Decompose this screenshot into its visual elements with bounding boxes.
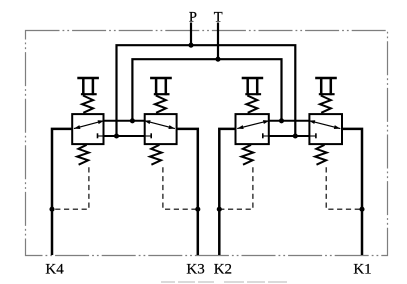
valve V3 bottom spring — [242, 145, 254, 165]
valve V2 pilot tick — [150, 133, 152, 138]
wire P manifold — [117, 45, 296, 136]
junction dot P to right pair — [293, 133, 298, 138]
junction dot T to left pair — [130, 118, 135, 123]
junction dot pilot/K1 — [359, 207, 364, 212]
valve V3 flow arrow — [237, 121, 269, 129]
valve V3 body — [236, 114, 269, 144]
junction dot pilot/K4 — [49, 207, 54, 212]
valve V4 flow arrow — [309, 121, 341, 129]
valve V4 pilot tick — [315, 133, 317, 138]
wire valve V2 output to port K3 — [177, 129, 198, 255]
svg-text:K2: K2 — [214, 262, 232, 278]
wire P drop — [190, 23, 192, 47]
wire pilot supply line right pair — [269, 135, 310, 137]
valve V1 pilot tick — [97, 133, 99, 138]
valve V2 flow arrow — [144, 121, 175, 129]
valve V2 actuator symbol — [150, 77, 172, 79]
pilot line (dashed) valve V1 to port K4 — [52, 167, 89, 209]
wire supply line right pair — [269, 120, 310, 122]
valve V2 top spring — [155, 96, 166, 113]
junction dot pilot/K3 — [195, 207, 200, 212]
valve V3 actuator symbol — [242, 77, 264, 79]
junction dot T to right pair — [279, 118, 284, 123]
wire valve V4 output to port K1 — [342, 129, 362, 255]
pilot line (dashed) valve V3 to port K2 — [219, 167, 253, 209]
enclosure boundary (chain line) — [26, 31, 388, 256]
pilot line (dashed) valve V4 to port K1 — [326, 167, 362, 209]
wire pilot supply line left pair — [104, 135, 145, 137]
svg-text:K1: K1 — [353, 262, 371, 278]
cropped caption remnant — [161, 281, 287, 283]
valve V1 flow arrow — [74, 121, 104, 129]
junction dot P to left pair — [114, 133, 119, 138]
valve V3 pilot tick — [262, 133, 264, 138]
valve V4 bottom spring — [315, 145, 327, 165]
valve V4 top spring — [320, 96, 331, 113]
valve V2 body — [145, 114, 177, 144]
pilot line (dashed) valve V2 to port K3 — [163, 167, 198, 209]
valve V1 top spring — [82, 96, 93, 113]
wire valve V1 output to port K4 — [52, 129, 72, 255]
svg-text:K3: K3 — [186, 262, 204, 278]
valve V4 body — [309, 114, 342, 144]
wire T drop — [217, 23, 219, 61]
valve V4 actuator symbol — [315, 77, 337, 79]
svg-text:K4: K4 — [45, 262, 64, 278]
wire supply line left pair — [104, 120, 145, 122]
valve V1 body — [72, 114, 103, 144]
valve V2 bottom spring — [150, 145, 162, 165]
junction dot pilot/K2 — [217, 207, 222, 212]
junction dot P bus — [188, 43, 193, 48]
valve V1 actuator symbol — [77, 77, 99, 79]
valve V1 bottom spring — [77, 145, 89, 165]
wire valve V3 output to port K2 — [219, 129, 235, 255]
wire T manifold — [132, 59, 281, 121]
junction dot T bus — [215, 57, 220, 62]
valve V3 top spring — [246, 96, 257, 113]
